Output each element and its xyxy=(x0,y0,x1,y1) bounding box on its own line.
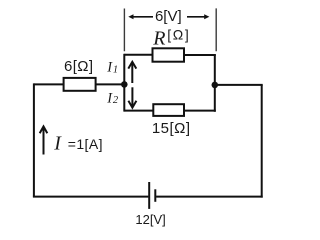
svg-text:[Ω]: [Ω] xyxy=(167,27,190,43)
svg-text:6[Ω]: 6[Ω] xyxy=(64,58,94,75)
svg-text:15[Ω]: 15[Ω] xyxy=(152,120,191,137)
svg-text:I: I xyxy=(53,133,62,155)
svg-text:I1: I1 xyxy=(106,60,118,76)
svg-text:I2: I2 xyxy=(106,90,119,106)
svg-text:=1[A]: =1[A] xyxy=(68,136,103,152)
svg-text:6[V]: 6[V] xyxy=(155,8,182,25)
svg-text:12[V]: 12[V] xyxy=(135,212,165,227)
svg-text:R: R xyxy=(152,27,165,49)
